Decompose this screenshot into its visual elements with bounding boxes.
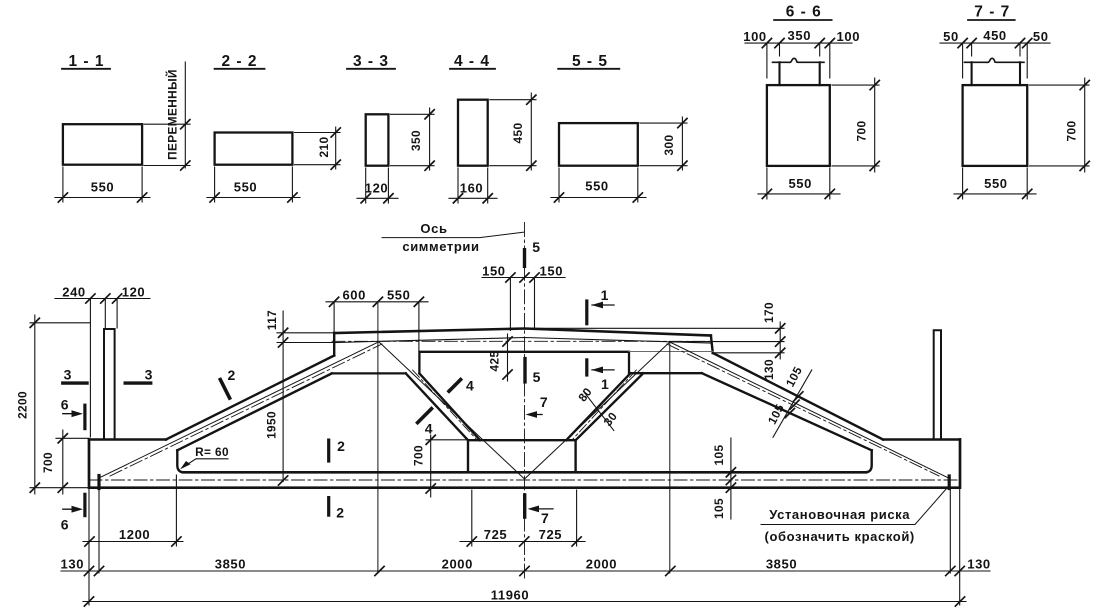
section 7-7 post tab — [972, 62, 1020, 85]
svg-text:350: 350 — [788, 28, 812, 43]
svg-text:5: 5 — [533, 369, 541, 385]
dimension 550 under 7-7 — [954, 168, 1036, 199]
position mark 2 on left chord — [220, 367, 235, 398]
dimension 2200 at far left — [16, 315, 91, 494]
left end block top edge — [89, 438, 166, 440]
right chord axis line — [667, 344, 939, 476]
label Ось симметрии — [382, 221, 524, 254]
position mark 2 in left opening — [329, 438, 345, 461]
middle block — [468, 440, 576, 472]
left bearing shelf soffit — [332, 372, 406, 374]
svg-text:210: 210 — [317, 137, 331, 158]
bottom extension lines — [89, 488, 960, 605]
section cut 1 lower marker — [587, 360, 614, 392]
svg-text:4: 4 — [466, 378, 474, 394]
dimensions 600 550 above left deck end — [326, 288, 428, 352]
section cut 1 top marker — [587, 287, 614, 324]
section 2-2 outline — [215, 133, 293, 165]
left sloped chord — [166, 356, 334, 451]
dimensions 240 120 above left post — [55, 285, 150, 438]
section cut 5 top bar — [523, 250, 526, 267]
svg-text:105: 105 — [765, 402, 787, 427]
svg-text:160: 160 — [460, 181, 484, 196]
svg-text:50: 50 — [1033, 29, 1049, 44]
dimension 550 under 5-5 — [551, 168, 646, 202]
svg-text:700: 700 — [1065, 121, 1079, 142]
right opening fillet — [865, 450, 872, 472]
svg-text:R= 60: R= 60 — [195, 445, 229, 459]
section 5-5 title — [558, 53, 619, 70]
svg-text:2200: 2200 — [16, 391, 30, 419]
svg-text:170: 170 — [762, 302, 776, 323]
position mark 4 upper — [449, 378, 474, 394]
svg-text:150: 150 — [540, 264, 564, 279]
svg-text:4 - 4: 4 - 4 — [454, 53, 490, 70]
svg-text:3850: 3850 — [766, 557, 797, 572]
svg-text:425: 425 — [488, 351, 502, 372]
dimensions 170 130 at right deck end — [525, 302, 785, 380]
thin strand diagonal centre bottom to right peak — [525, 342, 670, 479]
svg-text:2: 2 — [228, 367, 236, 383]
svg-text:550: 550 — [91, 180, 115, 195]
svg-text:700: 700 — [41, 452, 55, 473]
svg-text:50: 50 — [943, 29, 959, 44]
dimension 160 under 4-4 — [449, 168, 497, 203]
right V diagonal member — [566, 373, 643, 440]
svg-text:3850: 3850 — [215, 557, 246, 572]
svg-text:725: 725 — [539, 527, 563, 542]
left V member axis line — [413, 370, 477, 440]
svg-text:6 - 6: 6 - 6 — [786, 4, 822, 21]
svg-text:117: 117 — [265, 310, 279, 330]
thin strand diagonal left end to left peak — [99, 342, 379, 478]
dimension 210 right of 2-2 — [295, 127, 341, 169]
svg-text:130: 130 — [967, 557, 991, 572]
svg-text:120: 120 — [122, 285, 146, 300]
svg-text:6: 6 — [61, 517, 69, 533]
svg-text:Ось: Ось — [420, 221, 447, 236]
svg-text:5 - 5: 5 - 5 — [572, 53, 608, 70]
svg-text:700: 700 — [855, 121, 869, 142]
section cut 5 middle bar — [523, 359, 526, 382]
svg-text:300: 300 — [662, 135, 676, 156]
svg-text:350: 350 — [409, 130, 423, 151]
left chord axis line — [110, 344, 382, 476]
left opening fillet R=60 — [177, 450, 184, 472]
svg-text:550: 550 — [788, 176, 812, 191]
svg-text:130: 130 — [762, 359, 776, 380]
svg-text:11960: 11960 — [491, 588, 529, 603]
deck bottom edge — [335, 338, 711, 344]
thin strand diagonal right peak to right end — [670, 342, 949, 478]
deck soffit hidden extension — [629, 351, 714, 353]
section 4-4 title — [450, 53, 495, 70]
section cut 6 upper marker — [61, 397, 85, 429]
section 2-2 title — [215, 53, 265, 70]
section 6-6 title — [774, 4, 832, 21]
svg-text:2 - 2: 2 - 2 — [221, 53, 257, 70]
svg-text:550: 550 — [585, 179, 609, 194]
section 1-1 outline — [63, 124, 142, 165]
dimensions 80 30 across right V member — [575, 385, 620, 431]
deck central soffit — [419, 352, 629, 374]
dimension 550 under 6-6 — [758, 168, 840, 199]
dimension 120 under 3-3 — [357, 168, 398, 203]
dimension 700 right of 7-7 — [1029, 78, 1089, 172]
label R=60 with leader — [180, 445, 229, 469]
position mark 2 below flange — [329, 498, 345, 521]
deck end faces — [334, 333, 713, 356]
svg-text:2: 2 — [336, 505, 344, 521]
svg-text:150: 150 — [482, 264, 506, 279]
svg-text:105: 105 — [783, 364, 805, 389]
svg-text:600: 600 — [342, 288, 366, 303]
dimensions 50 450 50 above 7-7 — [940, 28, 1050, 78]
svg-text:5: 5 — [532, 239, 540, 255]
dimension 450 right of 4-4 — [490, 93, 536, 170]
svg-text:130: 130 — [61, 557, 85, 572]
right bearing shelf soffit — [630, 372, 702, 374]
dimension 700 right of 6-6 — [832, 78, 879, 172]
svg-text:2000: 2000 — [442, 557, 473, 572]
beam bottom flange outline — [89, 440, 960, 488]
svg-text:1950: 1950 — [264, 411, 278, 439]
svg-text:7: 7 — [541, 510, 549, 526]
section cut 3-3 marks at left post — [63, 367, 153, 384]
dimension 117 deck thickness left — [265, 310, 336, 482]
svg-text:550: 550 — [984, 176, 1008, 191]
section 1-1 title — [62, 53, 110, 70]
dimension 550 under 1-1 — [55, 167, 150, 202]
right sloped chord — [702, 353, 883, 450]
svg-text:105: 105 — [712, 445, 726, 466]
label Установочная риска with leader — [761, 487, 948, 545]
svg-text:4: 4 — [425, 421, 433, 437]
svg-text:1 - 1: 1 - 1 — [68, 53, 104, 70]
deck axis line — [332, 340, 712, 342]
dimension ПЕРЕМЕННЫЙ right of 1-1 — [144, 62, 190, 170]
svg-text:100: 100 — [743, 29, 767, 44]
section cut 7 bottom marker — [525, 495, 553, 526]
svg-text:725: 725 — [484, 527, 508, 542]
axis of symmetry centreline — [524, 223, 526, 581]
svg-text:2: 2 — [337, 438, 345, 454]
svg-text:450: 450 — [511, 123, 525, 144]
dimensions 100 350 100 above 6-6 — [743, 28, 860, 78]
svg-text:3 - 3: 3 - 3 — [353, 53, 389, 70]
dimension row 130 3850 2000 2000 3850 130 — [61, 557, 991, 576]
svg-text:700: 700 — [412, 445, 426, 466]
section 6-6 outline — [767, 85, 830, 166]
section cut 6 lower marker — [61, 494, 85, 532]
svg-text:1200: 1200 — [119, 527, 150, 542]
svg-text:100: 100 — [837, 29, 861, 44]
dimension 11960 overall — [83, 588, 966, 607]
svg-text:ПЕРЕМЕННЫЙ: ПЕРЕМЕННЫЙ — [166, 69, 180, 160]
section 7-7 title — [968, 4, 1015, 21]
section 4-4 outline — [458, 100, 488, 166]
position mark 4 lower — [418, 409, 433, 437]
flange axis line — [89, 479, 960, 481]
dimensions 105 105 on flange right — [712, 438, 735, 519]
section 3-3 outline — [366, 114, 389, 165]
svg-text:7 - 7: 7 - 7 — [974, 4, 1010, 21]
svg-text:(обозначить краской): (обозначить краской) — [765, 529, 915, 544]
section 7-7 outline — [963, 85, 1028, 166]
right V member axis line — [572, 370, 636, 440]
dimensions 105 105 across right chord — [765, 364, 812, 437]
svg-text:240: 240 — [62, 285, 86, 300]
svg-text:6: 6 — [61, 397, 69, 413]
thin strand diagonal left peak to centre bottom — [379, 342, 525, 479]
svg-text:7: 7 — [540, 394, 548, 410]
dimension 700 at middle block — [412, 435, 467, 497]
svg-text:550: 550 — [234, 180, 258, 195]
deck top edge — [334, 329, 711, 336]
section cut 7 middle marker — [526, 394, 548, 418]
right end block top edge — [883, 438, 960, 440]
section 5-5 outline — [559, 123, 638, 166]
left setting mark (riska) — [97, 476, 100, 489]
dimension 700 at left end — [41, 430, 89, 494]
svg-text:Установочная риска: Установочная риска — [769, 507, 910, 522]
right post — [934, 330, 941, 439]
dimension 425 under deck centre — [488, 334, 513, 381]
extension line through left peak — [377, 302, 379, 573]
svg-text:3: 3 — [145, 367, 153, 383]
svg-text:3: 3 — [64, 367, 72, 383]
svg-text:450: 450 — [983, 28, 1007, 43]
left post — [104, 329, 115, 440]
dimension 550 under 2-2 — [207, 167, 300, 202]
dimension 1200 bottom left — [83, 475, 183, 546]
svg-text:симметрии: симметрии — [402, 239, 479, 254]
dimension 1950 left chord height — [264, 411, 287, 485]
section 6-6 post tab — [780, 62, 820, 85]
left V diagonal member — [406, 373, 480, 440]
svg-text:120: 120 — [365, 181, 389, 196]
extension line through right peak — [669, 342, 671, 573]
svg-text:550: 550 — [387, 288, 411, 303]
dimension 300 right of 5-5 — [640, 117, 687, 170]
svg-text:2000: 2000 — [586, 557, 617, 572]
dimensions 725 725 bottom centre — [460, 490, 585, 546]
dimension 350 right of 3-3 — [391, 108, 435, 170]
right setting mark (riska) — [948, 476, 951, 489]
svg-text:80: 80 — [575, 385, 595, 405]
svg-text:105: 105 — [712, 498, 726, 519]
svg-text:1: 1 — [601, 287, 609, 303]
dimensions 150 150 at top centre — [482, 264, 565, 331]
svg-text:1: 1 — [601, 376, 609, 392]
section 3-3 title — [347, 53, 395, 70]
